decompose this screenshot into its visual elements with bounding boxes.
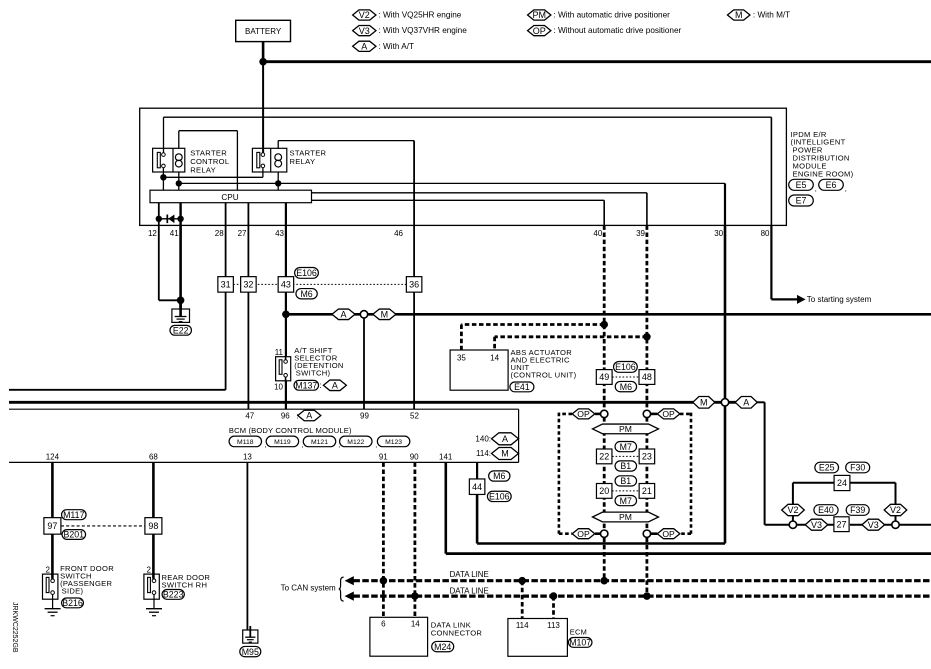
connector E40: [814, 505, 838, 516]
svg-text:V2: V2: [890, 505, 901, 515]
svg-text:E25: E25: [819, 463, 835, 473]
wire pin 28 to box 31: [225, 225, 227, 276]
svg-text:E106: E106: [615, 362, 636, 372]
svg-text:M6: M6: [620, 382, 632, 392]
svg-text:96: 96: [281, 411, 290, 420]
svg-text:2: 2: [147, 566, 152, 575]
connector M7 lower: [615, 496, 637, 506]
svg-text:27: 27: [238, 229, 247, 238]
wire ECM pin 113: [552, 596, 555, 618]
wire pin 46 to box 36: [413, 225, 415, 276]
wire battery drop: [262, 42, 265, 62]
ECM box: [508, 619, 568, 657]
connector M137: [294, 380, 319, 390]
svg-text:OP: OP: [662, 409, 675, 419]
CPU box: [150, 190, 312, 203]
svg-text:JRKWC2252GB: JRKWC2252GB: [11, 602, 18, 653]
splice box 48: [639, 370, 655, 385]
svg-text:21: 21: [642, 486, 652, 496]
splice box 97: [44, 518, 61, 535]
connector B1 upper: [615, 461, 637, 471]
front door switch: [43, 574, 58, 599]
svg-text:46: 46: [394, 229, 403, 238]
wire CPU pin 12: [158, 203, 160, 226]
svg-text:28: 28: [215, 229, 224, 238]
svg-text:141: 141: [439, 452, 453, 461]
svg-text:24: 24: [837, 478, 847, 488]
svg-text:22: 22: [599, 452, 609, 462]
dotted link 31-32-43-36: [233, 283, 406, 285]
connector E106 near 49-48: [614, 362, 638, 373]
option connector M: [373, 309, 396, 320]
legend connector A: [353, 41, 376, 51]
legend connector V3: [353, 26, 376, 36]
svg-text:99: 99: [360, 411, 369, 420]
connector E41: [510, 382, 534, 392]
splice box 43: [278, 277, 294, 293]
svg-text:E22: E22: [173, 325, 189, 335]
diode across 12-41: [156, 216, 162, 222]
wire contact outputs join: [162, 168, 164, 178]
OP connector top-left: [572, 409, 595, 419]
option connector V3 left: [805, 519, 828, 530]
svg-text:2: 2: [46, 566, 51, 575]
splice box 98: [145, 518, 162, 535]
wire starter relay coil to pin 46: [277, 141, 279, 149]
PM connector bottom: [593, 512, 659, 522]
svg-text:M24: M24: [434, 642, 451, 652]
svg-text:14: 14: [411, 620, 420, 629]
wire battery trunk right: [263, 60, 931, 63]
svg-text:F39: F39: [850, 505, 865, 515]
svg-text:M6: M6: [493, 471, 505, 481]
legend connector OP: [528, 26, 551, 36]
connector M119: [266, 436, 299, 447]
option connector V3 right: [862, 519, 885, 530]
wire starter control relay coil loop to CPU: [178, 131, 180, 149]
wire pin 12 down: [158, 225, 160, 300]
svg-text:30: 30: [714, 229, 723, 238]
legend connector V2: [353, 10, 376, 20]
option connector V2 left: [782, 504, 805, 515]
svg-text:M121: M121: [311, 439, 328, 446]
ground below rear door switch: [153, 594, 155, 608]
OP connector bottom-left: [572, 529, 595, 539]
dotted link 22-23: [612, 455, 639, 457]
wire box97 to front door switch: [51, 534, 54, 579]
wire CPU to pin 40: [312, 199, 605, 201]
node contact join to CPU: [160, 174, 166, 180]
node line1-ECM114: [518, 577, 526, 585]
ground E22 symbol: [172, 309, 190, 322]
ABS actuator box: [450, 350, 508, 390]
svg-text:32: 32: [243, 280, 253, 290]
wire box 43 down: [285, 292, 287, 357]
svg-text:6: 6: [381, 620, 386, 629]
option connector V2 right: [884, 504, 907, 515]
svg-text:V2: V2: [359, 10, 370, 20]
node line2-ECM113: [550, 592, 558, 600]
svg-text:CPU: CPU: [221, 193, 238, 202]
connector E106 near box43: [295, 268, 319, 279]
svg-text:ECM: ECM: [570, 627, 587, 636]
wire starter control relay contact to pin 80: [163, 117, 165, 153]
svg-text:SWITCH): SWITCH): [296, 369, 331, 378]
svg-text:SIDE): SIDE): [62, 587, 84, 596]
A/T selector internal stubs: [285, 357, 287, 360]
option connector A at pin 140: [492, 433, 519, 445]
connector F39: [846, 505, 869, 516]
svg-text:M: M: [381, 310, 389, 320]
svg-text:80: 80: [761, 229, 770, 238]
wire branch to ABS pin 35: [461, 323, 604, 326]
wire A-M option line: [286, 313, 931, 316]
svg-text:PM: PM: [619, 512, 632, 522]
svg-text:: With VQ37VHR engine: : With VQ37VHR engine: [379, 26, 468, 35]
arrow to starting system: [797, 295, 806, 304]
svg-text:BATTERY: BATTERY: [245, 27, 282, 36]
OP bypass left U: [595, 413, 601, 416]
node pin40 branch: [600, 321, 608, 329]
svg-text:: With M/T: : With M/T: [753, 11, 790, 20]
svg-text:12: 12: [148, 229, 157, 238]
splice box 44: [469, 479, 485, 495]
svg-text:A: A: [306, 411, 312, 421]
connector B1 lower: [615, 476, 637, 486]
svg-text:E41: E41: [514, 382, 530, 392]
node circle V2V3 left: [789, 521, 796, 528]
BCM box: [9, 408, 519, 410]
svg-text:To starting system: To starting system: [807, 295, 872, 304]
svg-text:E106: E106: [296, 268, 317, 278]
connector M24: [432, 641, 454, 651]
connector M123: [377, 436, 410, 447]
connector M6 near box44: [489, 471, 510, 481]
connector E7: [789, 195, 814, 206]
svg-text:M122: M122: [347, 439, 364, 446]
svg-text:SWITCH RH: SWITCH RH: [162, 581, 208, 590]
wire ECM pin 114: [521, 581, 524, 619]
connector B223: [162, 590, 184, 600]
rear door switch: [144, 574, 159, 599]
svg-text:B1: B1: [620, 476, 631, 486]
wire pin 90 dashed down: [413, 462, 416, 617]
svg-text:BCM (BODY CONTROL MODULE): BCM (BODY CONTROL MODULE): [229, 426, 352, 435]
svg-text:: With automatic drive positio: : With automatic drive positioner: [553, 11, 670, 20]
svg-text:20: 20: [599, 486, 609, 496]
svg-text:140:: 140:: [475, 434, 491, 443]
svg-text:47: 47: [245, 411, 254, 420]
option node circle: [360, 311, 367, 318]
svg-text:OP: OP: [577, 529, 590, 539]
svg-text:90: 90: [410, 452, 419, 461]
option node circle 39 top: [643, 410, 650, 417]
svg-text:M107: M107: [569, 638, 591, 648]
splice box 36: [406, 277, 422, 293]
CAN brace: [339, 577, 344, 601]
splice box 27: [834, 517, 849, 532]
option connector A for M137: [323, 380, 346, 391]
connector M107: [568, 638, 592, 648]
wire pin 80 down: [770, 225, 772, 299]
svg-text:52: 52: [410, 411, 419, 420]
svg-text:: Without automatic drive posi: : Without automatic drive positioner: [553, 26, 681, 35]
svg-text:ENGINE ROOM): ENGINE ROOM): [793, 169, 854, 178]
arrow CAN line 2: [345, 592, 354, 601]
svg-text:,: ,: [302, 442, 304, 449]
svg-text:To CAN system: To CAN system: [281, 584, 336, 593]
node line1-pin40: [600, 577, 608, 585]
svg-text:M: M: [501, 449, 509, 459]
svg-text:M: M: [735, 10, 743, 20]
wire pin 41 down: [179, 225, 182, 309]
wire CPU pin 28: [225, 203, 227, 226]
wire CPU pin 27: [247, 203, 249, 226]
wire branch to ABS pin 14: [495, 335, 647, 338]
svg-text:40: 40: [593, 229, 602, 238]
wire battery to starter relay contact: [262, 62, 264, 153]
wire V3 through line: [797, 524, 835, 526]
svg-text:A: A: [340, 310, 346, 320]
svg-text:43: 43: [275, 229, 284, 238]
legend connector PM: [528, 10, 551, 20]
svg-text:,: ,: [815, 184, 817, 193]
svg-text:B1: B1: [620, 461, 631, 471]
splice box 49: [596, 370, 612, 385]
svg-text:: With A/T: : With A/T: [379, 42, 414, 51]
svg-text:OP: OP: [533, 26, 546, 36]
wire pin 124 down: [51, 462, 54, 517]
starter relay: [252, 148, 286, 172]
wire circle down to BCM pin 99: [363, 318, 365, 409]
svg-text:V3: V3: [811, 520, 822, 530]
svg-text:OP: OP: [662, 529, 675, 539]
svg-text:114: 114: [516, 621, 529, 630]
legend connector M: [727, 10, 750, 20]
svg-text:V3: V3: [359, 26, 370, 36]
svg-text:41: 41: [170, 229, 179, 238]
option node circle 40 top: [601, 410, 608, 417]
node line1-91: [380, 577, 388, 585]
splice box 23: [639, 449, 655, 464]
connector B216: [62, 598, 84, 608]
svg-text:DATA LINE: DATA LINE: [450, 570, 489, 579]
svg-text:35: 35: [457, 354, 466, 363]
wire pin 30 down to circle: [724, 225, 727, 398]
svg-text:E106: E106: [489, 492, 510, 502]
A/T shift selector (detention switch): [276, 357, 291, 381]
svg-text:36: 36: [409, 280, 419, 290]
OP connector top-right: [657, 409, 680, 419]
starter control relay: [153, 148, 185, 172]
svg-text:A: A: [502, 434, 508, 444]
svg-text:M137: M137: [295, 380, 317, 390]
splice box 22: [596, 449, 612, 464]
node line2-pin39: [643, 592, 651, 600]
option node circle pin30: [721, 399, 728, 406]
connector B201: [62, 530, 86, 540]
splice box 24: [834, 475, 850, 490]
svg-text:M6: M6: [300, 289, 312, 299]
node ground junction E22: [177, 297, 185, 305]
svg-text:A: A: [332, 381, 338, 391]
svg-text:E5: E5: [796, 180, 807, 190]
svg-text:E40: E40: [818, 505, 834, 515]
connector M7 upper: [615, 442, 637, 452]
svg-text:M123: M123: [385, 439, 402, 446]
wire pin 141 down-right trunk: [444, 462, 447, 553]
dashed link 97-98: [61, 525, 145, 527]
connector M122: [340, 436, 373, 447]
svg-text:114:: 114:: [476, 449, 491, 458]
svg-text:49: 49: [599, 372, 609, 382]
svg-text:B201: B201: [64, 530, 85, 540]
connector M117: [62, 510, 87, 520]
connector E6: [819, 179, 844, 190]
connector M95: [240, 646, 261, 656]
svg-text:14: 14: [490, 354, 499, 363]
wire coil commons to pin 30: [178, 172, 180, 183]
svg-text:113: 113: [547, 621, 560, 630]
splice box 20: [596, 484, 612, 499]
svg-text:M7: M7: [620, 496, 632, 506]
svg-text:48: 48: [642, 372, 652, 382]
svg-text:PM: PM: [619, 424, 632, 434]
node coil common left: [176, 180, 182, 186]
svg-text:RELAY: RELAY: [290, 157, 316, 166]
IPDM E/R box: [140, 108, 787, 225]
svg-text:CONNECTOR: CONNECTOR: [431, 629, 483, 638]
dotted link 49-48: [612, 376, 639, 378]
CAN data line 2: [353, 594, 931, 597]
connector E106 near box44: [487, 491, 511, 501]
svg-text:A: A: [743, 398, 749, 408]
wire CPU pin 43: [285, 203, 287, 226]
CAN data line 1: [353, 579, 931, 582]
OP connector bottom-right: [657, 529, 680, 539]
svg-text:91: 91: [379, 452, 388, 461]
svg-text:31: 31: [221, 280, 231, 290]
OP bypass right U: [651, 413, 658, 416]
ground M95 symbol: [243, 630, 258, 643]
svg-text:11: 11: [275, 348, 284, 357]
svg-text:10: 10: [274, 383, 283, 392]
connector M6 near box43: [296, 289, 317, 299]
wire pin 91 dashed down: [382, 462, 385, 617]
arrow CAN line 1: [345, 576, 354, 585]
svg-text::: :: [320, 381, 322, 390]
wire trunk to M option: [9, 401, 757, 404]
svg-text:(CONTROL UNIT): (CONTROL UNIT): [511, 371, 577, 380]
svg-text:M117: M117: [63, 510, 84, 520]
PM connector top: [593, 424, 659, 434]
wire box 36 to BCM pin 52: [413, 292, 415, 409]
svg-text:98: 98: [148, 521, 158, 531]
svg-text:B223: B223: [163, 590, 184, 600]
svg-text:,: ,: [845, 184, 847, 193]
svg-text:E7: E7: [796, 196, 807, 206]
wire CPU pin 41: [179, 203, 181, 226]
svg-text:F30: F30: [850, 463, 865, 473]
svg-text:,: ,: [338, 442, 340, 449]
wire box 32 to BCM pin 47: [247, 292, 249, 409]
svg-text:,: ,: [375, 442, 377, 449]
wire box 31 down-left to sheet edge: [225, 292, 227, 390]
option connector A: [332, 309, 355, 320]
svg-text:RELAY: RELAY: [190, 166, 216, 175]
svg-text:43: 43: [281, 280, 291, 290]
node line2-90: [411, 592, 419, 600]
svg-text:M: M: [700, 398, 708, 408]
svg-text:M95: M95: [242, 647, 259, 657]
option node circle 40 bottom: [601, 530, 608, 537]
svg-text:13: 13: [243, 452, 252, 461]
connector M6 near 49-48: [615, 381, 636, 391]
wire pin 39 dashed down: [646, 225, 649, 596]
option node circle 39 bottom: [643, 530, 650, 537]
wire pin 27 to box 32: [247, 225, 249, 276]
connector E22: [170, 325, 192, 335]
node circle V2V3 right: [892, 521, 899, 528]
svg-text:M7: M7: [620, 442, 632, 452]
option connector M on trunk: [693, 397, 715, 409]
wire pin 40 dashed down: [603, 225, 606, 580]
wire box44 to pin30 path: [476, 495, 479, 544]
connector F30: [846, 462, 870, 473]
svg-text:,: ,: [265, 442, 267, 449]
wire pin 68 down: [152, 462, 155, 517]
node pin39 branch: [643, 333, 651, 341]
option connector A at pin 96: [298, 410, 321, 421]
connector E5: [789, 179, 814, 190]
splice box 31: [218, 277, 234, 293]
svg-text:A: A: [361, 42, 367, 52]
wire pin 13 down: [246, 462, 248, 630]
svg-text:44: 44: [472, 482, 482, 492]
svg-text:V2: V2: [787, 505, 798, 515]
svg-text:39: 39: [636, 229, 645, 238]
svg-text:DATA LINE: DATA LINE: [450, 587, 489, 596]
svg-text:124: 124: [46, 452, 60, 461]
svg-text:OP: OP: [577, 409, 590, 419]
wire box98 to rear door switch: [152, 534, 155, 579]
wire pin 43 to box 43: [285, 225, 287, 276]
wire pin 140-114 down: [476, 462, 478, 479]
dotted link 20-21: [612, 490, 639, 492]
node 43-wire junction: [282, 311, 290, 319]
svg-text:E6: E6: [826, 180, 837, 190]
connector M121: [303, 436, 336, 447]
svg-text:68: 68: [149, 452, 158, 461]
svg-text:M118: M118: [237, 439, 254, 446]
svg-text:27: 27: [836, 519, 846, 529]
wire A branch to V2V3: [757, 401, 764, 403]
option connector A on trunk: [735, 397, 757, 409]
node battery junction: [259, 58, 267, 66]
splice box 21: [639, 484, 655, 499]
svg-text:: With VQ25HR engine: : With VQ25HR engine: [379, 11, 462, 20]
svg-text:V3: V3: [868, 520, 879, 530]
battery: [236, 20, 291, 41]
wire selector to BCM pin 96: [285, 381, 287, 409]
node coil common right: [275, 180, 281, 186]
data link connector box: [370, 617, 428, 656]
connector M118: [229, 436, 261, 447]
svg-text:PM: PM: [532, 10, 546, 20]
wire V2 branch: [792, 483, 794, 521]
splice box 32: [241, 277, 257, 293]
svg-text:97: 97: [47, 521, 57, 531]
